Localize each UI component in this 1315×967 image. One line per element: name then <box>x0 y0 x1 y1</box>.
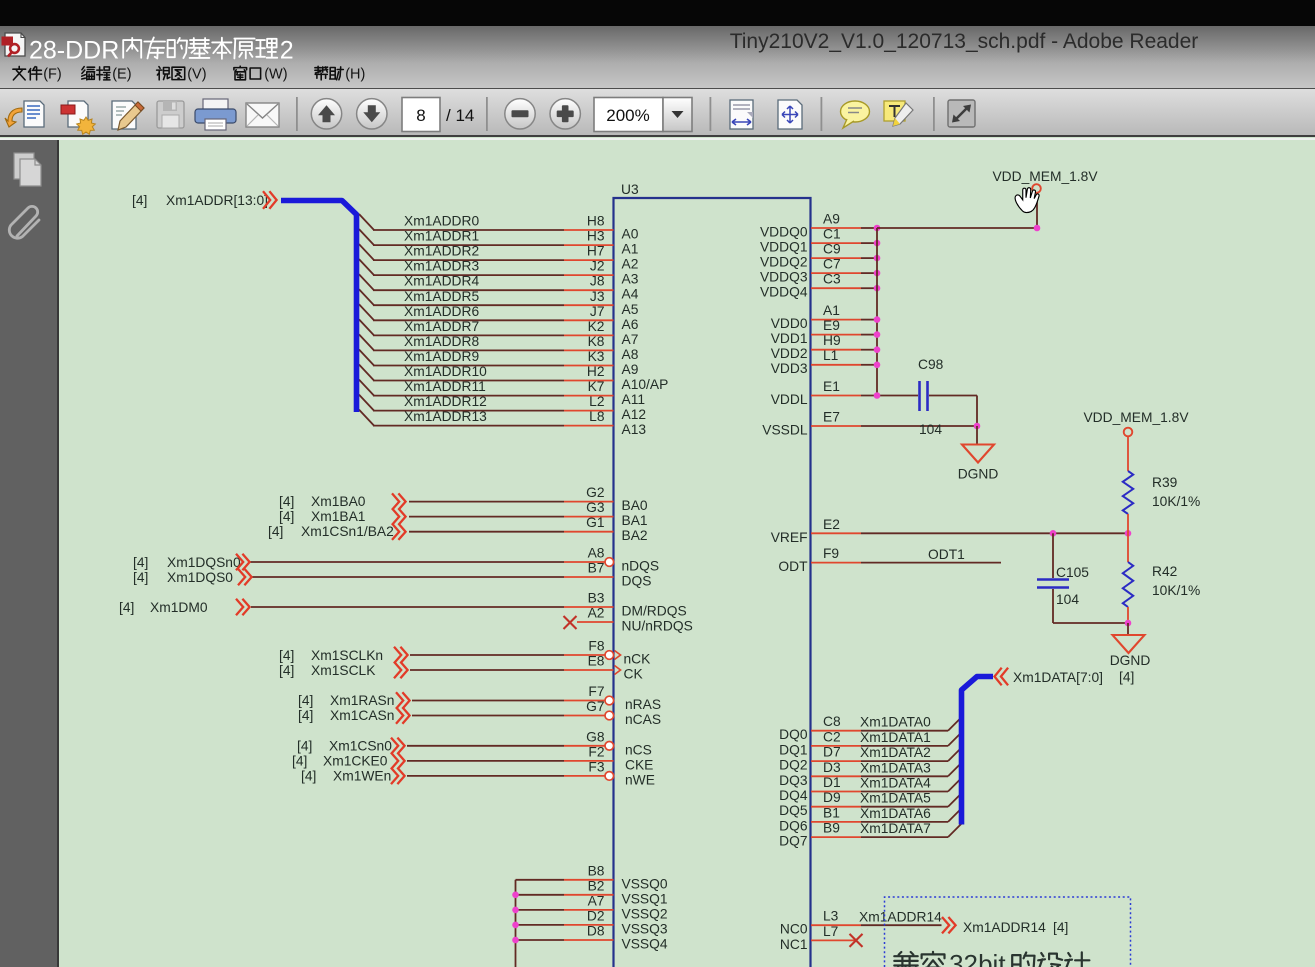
svg-text:nCK: nCK <box>624 652 652 667</box>
svg-text:D8: D8 <box>587 924 605 939</box>
svg-text:10K/1%: 10K/1% <box>1152 583 1200 598</box>
svg-text:104: 104 <box>1056 592 1079 607</box>
svg-text:NC1: NC1 <box>780 937 808 952</box>
svg-text:(H): (H) <box>345 67 365 83</box>
svg-text:R42: R42 <box>1152 564 1177 579</box>
svg-text:Xm1ADDR7: Xm1ADDR7 <box>404 319 479 334</box>
svg-text:K2: K2 <box>588 319 605 334</box>
svg-text:Xm1ADDR14: Xm1ADDR14 <box>963 920 1046 935</box>
svg-text:J3: J3 <box>590 289 605 304</box>
svg-text:Xm1DATA3: Xm1DATA3 <box>860 760 931 775</box>
svg-text:[4]: [4] <box>119 600 134 615</box>
svg-text:Xm1ADDR2: Xm1ADDR2 <box>404 244 479 259</box>
svg-text:Xm1ADDR13: Xm1ADDR13 <box>404 409 487 424</box>
svg-text:VSSQ1: VSSQ1 <box>622 891 668 906</box>
svg-text:D9: D9 <box>823 790 841 805</box>
svg-text:Xm1DATA1: Xm1DATA1 <box>860 730 931 745</box>
svg-text:Xm1BA1: Xm1BA1 <box>311 509 365 524</box>
svg-text:L8: L8 <box>589 409 605 424</box>
svg-text:Xm1CASn: Xm1CASn <box>330 708 394 723</box>
svg-text:A12: A12 <box>622 407 647 422</box>
svg-text:Xm1RASn: Xm1RASn <box>330 693 394 708</box>
svg-text:[4]: [4] <box>298 693 313 708</box>
svg-text:F3: F3 <box>588 759 604 774</box>
svg-text:DQ3: DQ3 <box>779 773 808 788</box>
svg-text:C7: C7 <box>823 257 841 272</box>
svg-text:F9: F9 <box>823 546 839 561</box>
svg-text:B8: B8 <box>588 863 605 878</box>
svg-text:A3: A3 <box>622 272 639 287</box>
svg-text:Xm1DATA4: Xm1DATA4 <box>860 776 931 791</box>
svg-text:VDDQ1: VDDQ1 <box>760 240 808 255</box>
svg-text:[4]: [4] <box>133 555 148 570</box>
svg-text:C3: C3 <box>823 272 841 287</box>
svg-text:nCS: nCS <box>625 742 652 757</box>
svg-text:[4]: [4] <box>279 663 294 678</box>
svg-text:E7: E7 <box>823 410 840 425</box>
svg-text:[4]: [4] <box>268 524 283 539</box>
svg-text:Xm1BA0: Xm1BA0 <box>311 494 366 509</box>
svg-text:VDDQ4: VDDQ4 <box>760 285 808 300</box>
svg-text:J7: J7 <box>590 304 605 319</box>
svg-text:L7: L7 <box>823 924 838 939</box>
svg-text:VDDQ0: VDDQ0 <box>760 225 808 240</box>
svg-text:[4]: [4] <box>1119 670 1134 685</box>
svg-text:DQ2: DQ2 <box>779 758 807 773</box>
svg-text:VSSQ2: VSSQ2 <box>622 906 668 921</box>
svg-text:Xm1DATA[7:0]: Xm1DATA[7:0] <box>1013 670 1103 685</box>
svg-text:nCAS: nCAS <box>625 712 661 727</box>
svg-text:B7: B7 <box>588 561 605 576</box>
svg-text:A1: A1 <box>823 303 840 318</box>
svg-text:Xm1ADDR14: Xm1ADDR14 <box>859 910 942 925</box>
svg-text:10K/1%: 10K/1% <box>1152 494 1200 509</box>
svg-text:Xm1SCLK: Xm1SCLK <box>311 663 376 678</box>
svg-text:VDD3: VDD3 <box>771 361 808 376</box>
svg-text:K8: K8 <box>588 334 605 349</box>
svg-text:F8: F8 <box>588 639 604 654</box>
svg-text:VDD0: VDD0 <box>771 316 808 331</box>
svg-text:[4]: [4] <box>279 648 294 663</box>
svg-text:2: 2 <box>280 37 294 65</box>
svg-text:Xm1ADDR11: Xm1ADDR11 <box>404 379 486 394</box>
svg-text:Xm1ADDR1: Xm1ADDR1 <box>404 229 479 244</box>
svg-text:Xm1ADDR8: Xm1ADDR8 <box>404 334 479 349</box>
svg-text:Xm1DATA7: Xm1DATA7 <box>860 821 931 836</box>
svg-text:Xm1WEn: Xm1WEn <box>333 768 391 783</box>
svg-text:VDD_MEM_1.8V: VDD_MEM_1.8V <box>1083 410 1189 425</box>
svg-text:B1: B1 <box>823 805 840 820</box>
svg-text:C9: C9 <box>823 242 841 257</box>
svg-text:[4]: [4] <box>279 494 294 509</box>
svg-text:J8: J8 <box>590 274 605 289</box>
svg-text:BA0: BA0 <box>622 498 648 513</box>
svg-text:ODT: ODT <box>778 559 808 574</box>
svg-text:A10/AP: A10/AP <box>622 377 669 392</box>
svg-text:DQS: DQS <box>622 574 652 589</box>
svg-text:(W): (W) <box>264 67 287 83</box>
svg-text:BA1: BA1 <box>622 513 648 528</box>
svg-text:DQ4: DQ4 <box>779 788 808 803</box>
svg-text:Xm1ADDR6: Xm1ADDR6 <box>404 304 479 319</box>
svg-text:B3: B3 <box>588 591 605 606</box>
svg-text:VSSQ3: VSSQ3 <box>622 921 668 936</box>
svg-text:F2: F2 <box>588 744 604 759</box>
svg-text:C98: C98 <box>918 357 944 372</box>
svg-text:A0: A0 <box>622 227 639 242</box>
svg-text:A6: A6 <box>622 317 639 332</box>
svg-text:D1: D1 <box>823 775 841 790</box>
svg-text:Xm1ADDR3: Xm1ADDR3 <box>404 259 479 274</box>
svg-text:L3: L3 <box>823 909 839 924</box>
svg-text:U3: U3 <box>621 182 639 197</box>
svg-text:B9: B9 <box>823 821 840 836</box>
svg-text:nRAS: nRAS <box>625 697 661 712</box>
svg-text:[4]: [4] <box>298 708 313 723</box>
svg-text:32: 32 <box>949 949 978 967</box>
svg-text:A2: A2 <box>588 606 605 621</box>
svg-text:DGND: DGND <box>1110 653 1151 668</box>
svg-text:Xm1ADDR10: Xm1ADDR10 <box>404 364 487 379</box>
svg-text:28-DDR: 28-DDR <box>29 37 119 65</box>
svg-text:(F): (F) <box>43 67 62 83</box>
svg-text:Xm1CSn1/BA2: Xm1CSn1/BA2 <box>301 524 394 539</box>
svg-text:R39: R39 <box>1152 475 1178 490</box>
svg-text:C2: C2 <box>823 729 841 744</box>
svg-text:DQ7: DQ7 <box>779 834 807 849</box>
svg-text:/ 14: / 14 <box>446 106 474 125</box>
svg-text:NC0: NC0 <box>780 922 808 937</box>
svg-text:Xm1SCLKn: Xm1SCLKn <box>311 648 383 663</box>
svg-text:VSSDL: VSSDL <box>762 423 808 438</box>
svg-text:A8: A8 <box>588 546 605 561</box>
svg-text:A11: A11 <box>622 392 646 407</box>
svg-text:H9: H9 <box>823 333 841 348</box>
svg-text:G8: G8 <box>586 729 605 744</box>
svg-text:Xm1DM0: Xm1DM0 <box>150 600 208 615</box>
svg-text:Xm1CSn0: Xm1CSn0 <box>329 738 392 753</box>
svg-text:BA2: BA2 <box>622 528 648 543</box>
svg-text:G7: G7 <box>586 699 604 714</box>
svg-text:VDD2: VDD2 <box>771 346 808 361</box>
svg-text:C8: C8 <box>823 714 841 729</box>
svg-text:bit: bit <box>978 949 1006 967</box>
svg-text:[4]: [4] <box>1053 920 1068 935</box>
svg-text:Xm1DQSn0: Xm1DQSn0 <box>167 555 241 570</box>
svg-text:Xm1ADDR5: Xm1ADDR5 <box>404 289 479 304</box>
svg-text:B2: B2 <box>588 878 605 893</box>
svg-text:nDQS: nDQS <box>622 559 660 574</box>
svg-text:[4]: [4] <box>301 768 316 783</box>
svg-text:(E): (E) <box>112 67 131 83</box>
svg-text:E1: E1 <box>823 379 840 394</box>
svg-text:DM/RDQS: DM/RDQS <box>622 604 687 619</box>
svg-text:A9: A9 <box>823 212 840 227</box>
svg-text:Xm1ADDR12: Xm1ADDR12 <box>404 394 487 409</box>
svg-text:ODT1: ODT1 <box>928 547 965 562</box>
svg-text:H8: H8 <box>587 214 605 229</box>
svg-text:A1: A1 <box>622 242 639 257</box>
svg-text:104: 104 <box>919 422 942 437</box>
svg-text:VSSQ0: VSSQ0 <box>622 876 668 891</box>
svg-text:nWE: nWE <box>625 772 655 787</box>
svg-text:Xm1DATA5: Xm1DATA5 <box>860 791 931 806</box>
svg-text:8: 8 <box>416 106 425 125</box>
svg-text:F7: F7 <box>588 684 604 699</box>
svg-text:Xm1ADDR0: Xm1ADDR0 <box>404 214 479 229</box>
svg-text:E8: E8 <box>588 654 605 669</box>
svg-text:NU/nRDQS: NU/nRDQS <box>622 619 693 634</box>
svg-text:A7: A7 <box>622 332 639 347</box>
svg-text:A9: A9 <box>622 362 639 377</box>
svg-text:A13: A13 <box>622 422 647 437</box>
svg-text:E2: E2 <box>823 517 840 532</box>
svg-text:DQ1: DQ1 <box>779 742 807 757</box>
svg-text:Tiny210V2_V1.0_120713_sch.pdf: Tiny210V2_V1.0_120713_sch.pdf - Adobe Re… <box>730 30 1199 53</box>
svg-text:A2: A2 <box>622 257 639 272</box>
svg-text:[4]: [4] <box>132 193 147 208</box>
svg-text:L1: L1 <box>823 348 838 363</box>
svg-text:A7: A7 <box>588 893 605 908</box>
svg-text:VDDL: VDDL <box>771 392 808 407</box>
svg-text:D7: D7 <box>823 745 841 760</box>
svg-text:VDD1: VDD1 <box>771 331 808 346</box>
svg-text:E9: E9 <box>823 318 840 333</box>
svg-text:200%: 200% <box>606 106 649 125</box>
svg-text:[4]: [4] <box>279 509 294 524</box>
svg-text:CK: CK <box>624 667 644 682</box>
svg-text:[4]: [4] <box>292 753 307 768</box>
svg-text:VSSQ4: VSSQ4 <box>622 937 668 952</box>
svg-text:VDD_MEM_1.8V: VDD_MEM_1.8V <box>992 169 1098 184</box>
svg-text:Xm1ADDR9: Xm1ADDR9 <box>404 349 479 364</box>
svg-text:CKE: CKE <box>625 757 653 772</box>
svg-text:A8: A8 <box>622 347 639 362</box>
svg-text:Xm1DATA0: Xm1DATA0 <box>860 715 931 730</box>
svg-text:Xm1CKE0: Xm1CKE0 <box>323 753 388 768</box>
svg-text:DQ5: DQ5 <box>779 803 808 818</box>
svg-text:[4]: [4] <box>297 738 312 753</box>
svg-text:K3: K3 <box>588 349 605 364</box>
svg-text:H7: H7 <box>587 244 605 259</box>
svg-text:Xm1ADDR4: Xm1ADDR4 <box>404 274 479 289</box>
svg-text:VDDQ2: VDDQ2 <box>760 255 808 270</box>
svg-text:DGND: DGND <box>958 467 999 482</box>
svg-text:D2: D2 <box>587 908 605 923</box>
svg-text:Xm1ADDR[13:0]: Xm1ADDR[13:0] <box>166 193 268 208</box>
svg-text:(V): (V) <box>187 67 206 83</box>
svg-text:A5: A5 <box>622 302 639 317</box>
svg-text:[4]: [4] <box>133 570 148 585</box>
svg-text:VDDQ3: VDDQ3 <box>760 270 808 285</box>
svg-text:Xm1DATA6: Xm1DATA6 <box>860 806 931 821</box>
svg-text:H2: H2 <box>587 364 605 379</box>
svg-text:G1: G1 <box>586 515 604 530</box>
svg-text:DQ0: DQ0 <box>779 727 808 742</box>
svg-text:L2: L2 <box>589 394 604 409</box>
svg-text:D3: D3 <box>823 760 841 775</box>
svg-text:A4: A4 <box>622 287 639 302</box>
svg-text:G3: G3 <box>586 500 605 515</box>
svg-text:DQ6: DQ6 <box>779 818 808 833</box>
svg-text:C105: C105 <box>1056 565 1089 580</box>
svg-text:J2: J2 <box>590 259 605 274</box>
svg-text:C1: C1 <box>823 227 841 242</box>
svg-text:VREF: VREF <box>771 530 808 545</box>
svg-text:Xm1DATA2: Xm1DATA2 <box>860 745 931 760</box>
svg-text:G2: G2 <box>586 485 604 500</box>
svg-text:H3: H3 <box>587 229 605 244</box>
svg-text:K7: K7 <box>588 379 605 394</box>
svg-text:Xm1DQS0: Xm1DQS0 <box>167 570 233 585</box>
